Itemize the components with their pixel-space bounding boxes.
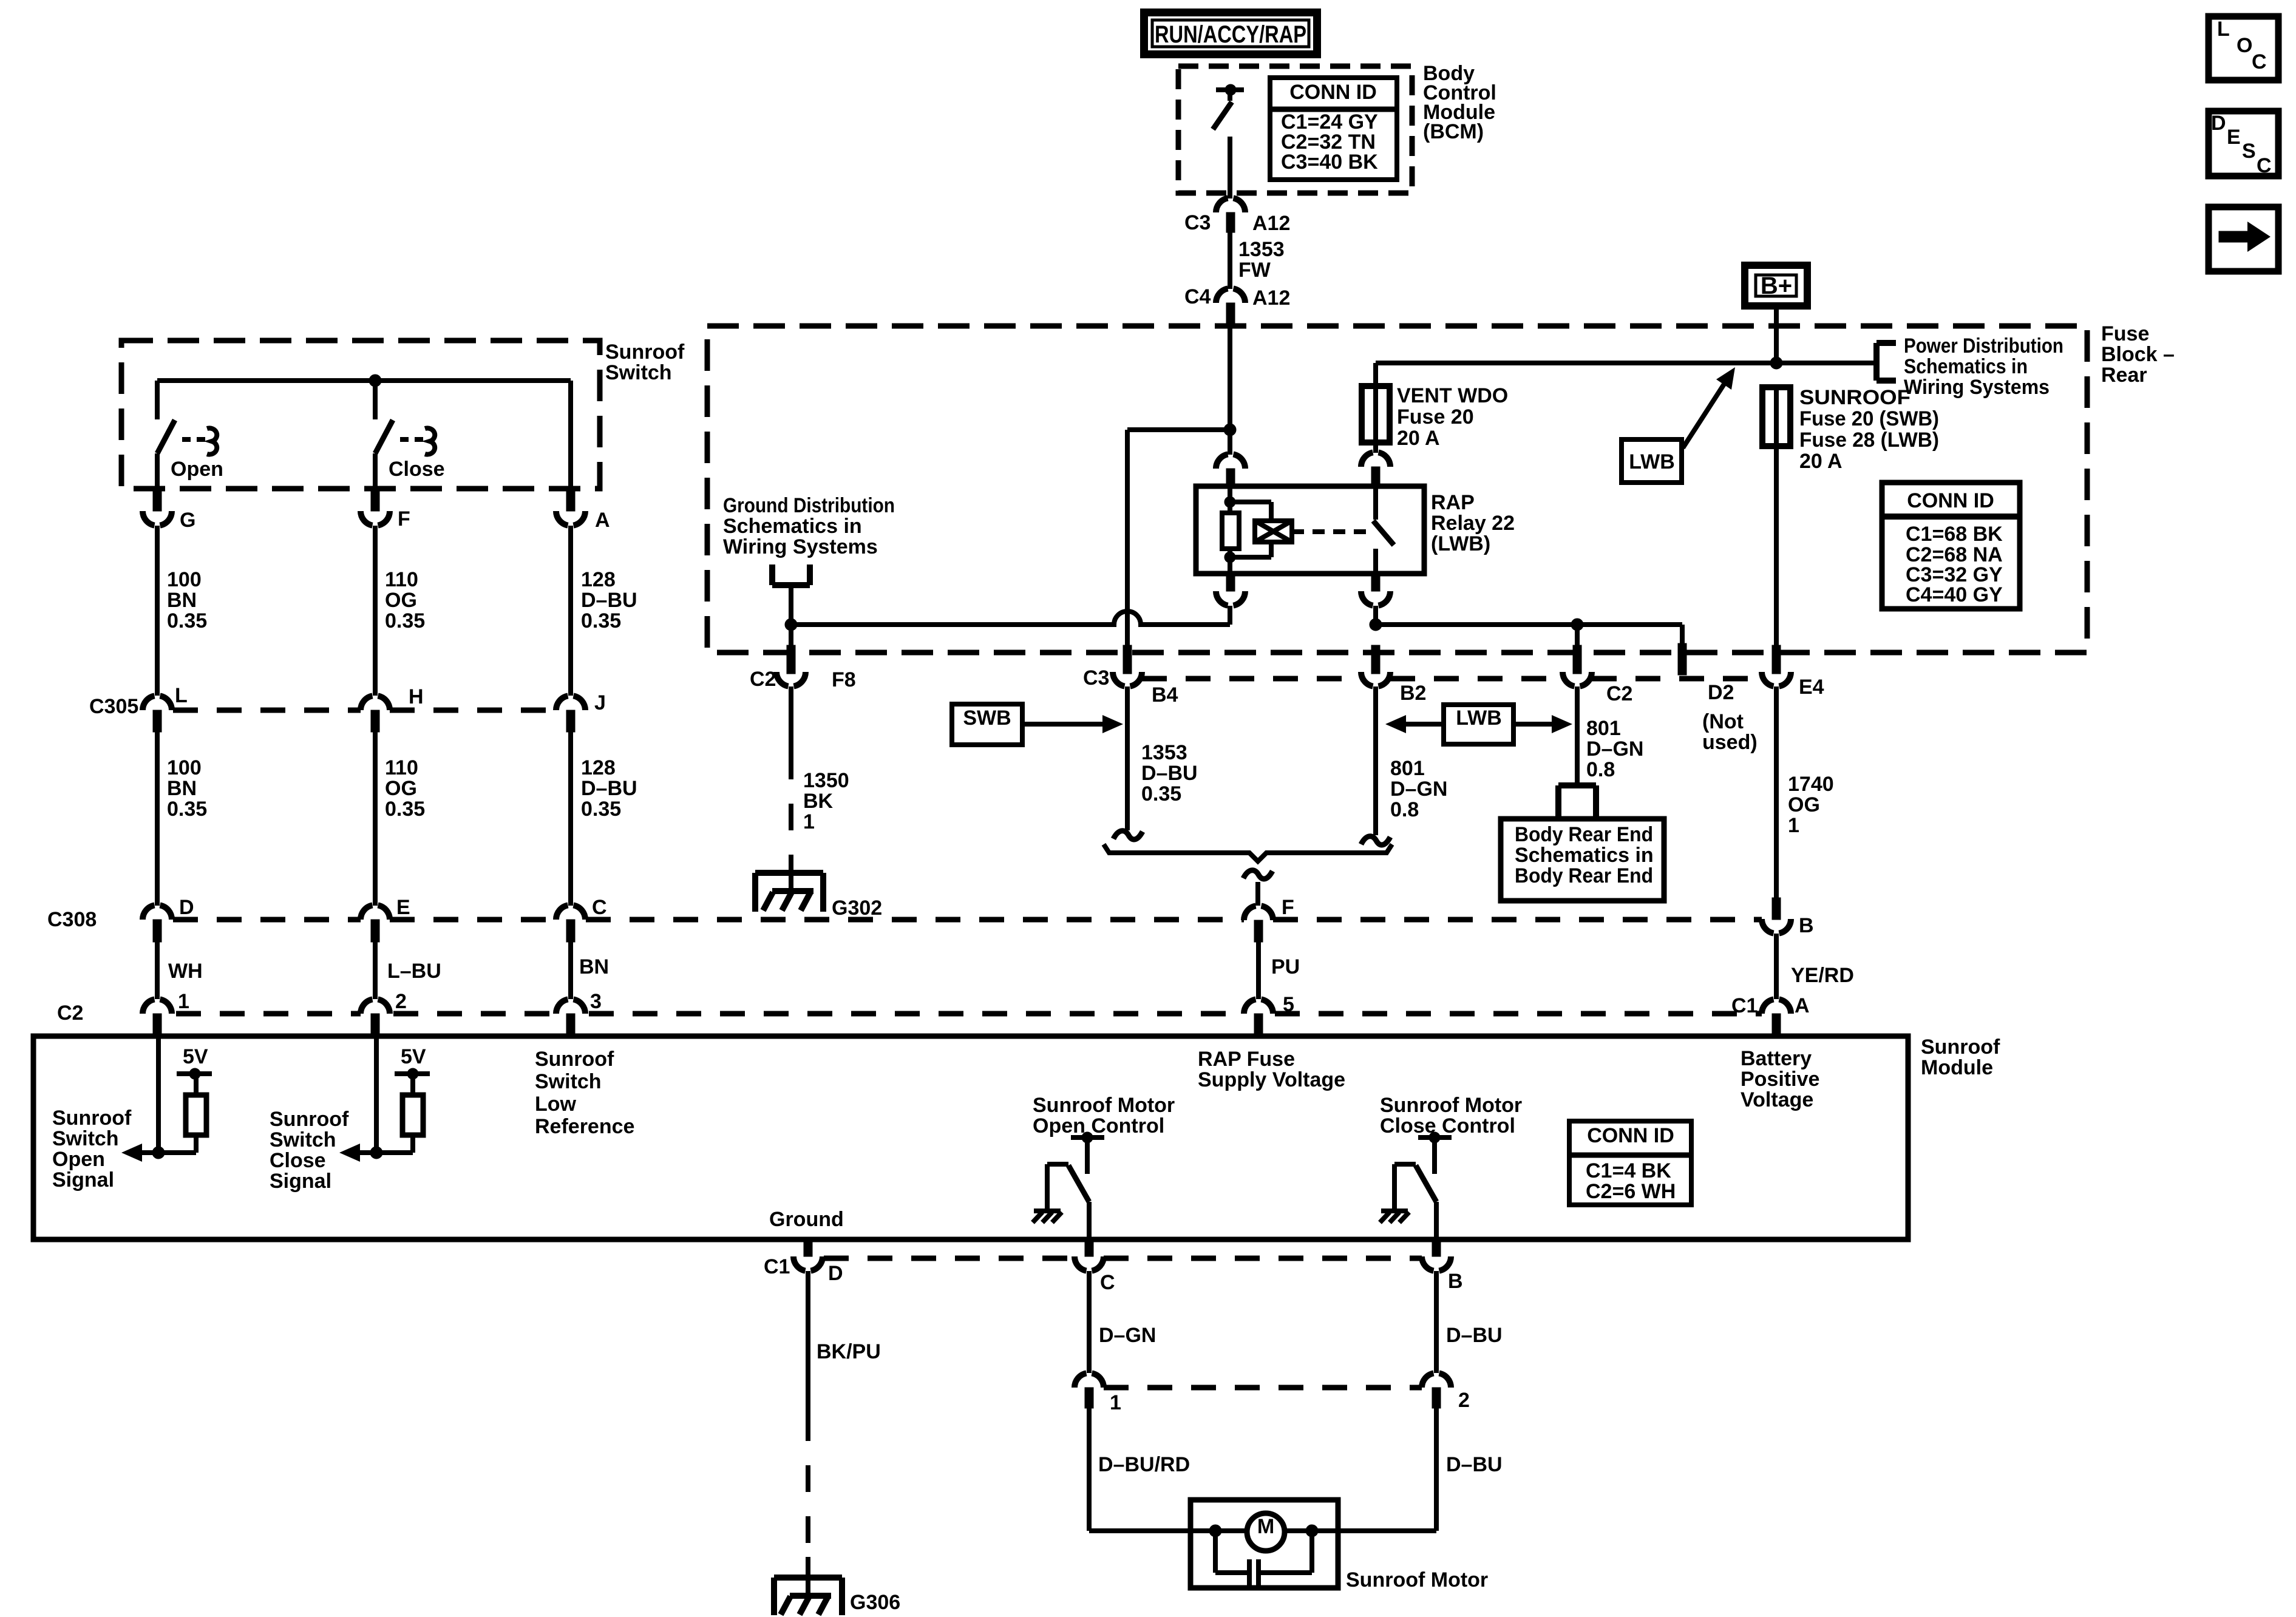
svg-text:RUN/ACCY/RAP: RUN/ACCY/RAP xyxy=(1155,21,1306,48)
connector pin B xyxy=(1772,898,1781,920)
svg-text:Power Distribution: Power Distribution xyxy=(1904,334,2063,358)
svg-text:0.35: 0.35 xyxy=(167,798,207,821)
svg-text:110: 110 xyxy=(385,568,418,591)
LWB tag double arrow xyxy=(1444,705,1513,744)
svg-text:D2: D2 xyxy=(1708,681,1734,704)
wire brace to F xyxy=(1255,882,1260,906)
svg-text:Close Control: Close Control xyxy=(1380,1114,1515,1137)
connector C2 pin 1 xyxy=(143,999,172,1014)
svg-text:VENT WDO: VENT WDO xyxy=(1397,384,1508,407)
connector C305 pin L xyxy=(143,696,172,710)
svg-text:5V: 5V xyxy=(183,1045,208,1068)
svg-text:D–GN: D–GN xyxy=(1586,737,1643,761)
node motor right xyxy=(1306,1525,1318,1537)
svg-text:110: 110 xyxy=(385,756,418,779)
wire B+ to rail xyxy=(1774,310,1779,363)
svg-text:1: 1 xyxy=(178,990,189,1013)
svg-text:CONN ID: CONN ID xyxy=(1907,489,1994,512)
svg-text:C2: C2 xyxy=(750,668,776,691)
svg-text:E: E xyxy=(396,896,410,919)
sunroof module box xyxy=(33,1036,1908,1239)
motor open control switch xyxy=(1071,1135,1104,1140)
svg-text:O: O xyxy=(2237,34,2252,57)
wire junction to F8 xyxy=(789,625,793,645)
svg-text:Open Control: Open Control xyxy=(1033,1114,1164,1137)
svg-text:Battery: Battery xyxy=(1741,1047,1812,1070)
svg-text:WH: WH xyxy=(168,960,203,983)
svg-text:Signal: Signal xyxy=(52,1168,114,1192)
svg-text:F: F xyxy=(1282,896,1294,919)
wire 110 OG 0.35 lower xyxy=(373,732,378,906)
LWB tag with arrow xyxy=(1622,439,1682,483)
wire BK/PU xyxy=(806,1271,810,1414)
connector pin F xyxy=(371,492,379,511)
switch Close linkage xyxy=(400,437,423,442)
svg-text:Fuse 28 (LWB): Fuse 28 (LWB) xyxy=(1799,429,1939,452)
wire 100 BN 0.35 upper xyxy=(155,526,160,696)
wire BN xyxy=(568,942,573,999)
switch Close xyxy=(373,381,378,419)
svg-text:0.8: 0.8 xyxy=(1586,758,1615,781)
svg-text:Switch: Switch xyxy=(270,1128,336,1151)
node relay branch xyxy=(1224,424,1236,436)
svg-text:B: B xyxy=(1799,914,1814,937)
svg-text:C1=4 BK: C1=4 BK xyxy=(1586,1159,1671,1182)
connector D2 not used xyxy=(1678,643,1686,675)
svg-text:2: 2 xyxy=(1458,1389,1470,1412)
wire 128 D-BU 0.35 upper xyxy=(568,526,573,696)
body rear end note box xyxy=(1501,819,1664,901)
svg-text:LWB: LWB xyxy=(1456,707,1502,730)
svg-text:B4: B4 xyxy=(1152,683,1178,707)
svg-text:C3: C3 xyxy=(1184,211,1211,234)
svg-text:801: 801 xyxy=(1390,757,1425,780)
svg-text:Close: Close xyxy=(270,1149,326,1172)
svg-text:C: C xyxy=(1100,1271,1115,1294)
wire 100 BN 0.35 lower xyxy=(155,732,160,906)
ground close control xyxy=(1381,1209,1408,1213)
svg-text:D: D xyxy=(828,1262,843,1285)
arrow open signal xyxy=(142,1150,158,1155)
svg-text:Wiring Systems: Wiring Systems xyxy=(1904,376,2050,399)
svg-text:C: C xyxy=(592,896,607,919)
wire D-GN xyxy=(1087,1271,1092,1373)
relay pin top-right xyxy=(1361,452,1390,467)
wire D-BU/RD xyxy=(1087,1408,1092,1531)
DESC legend box xyxy=(2209,111,2278,176)
connector C308 pin D xyxy=(143,905,172,920)
svg-text:C305: C305 xyxy=(89,695,138,718)
svg-text:LWB: LWB xyxy=(1629,450,1675,473)
wire YE/RD xyxy=(1774,934,1779,999)
fuse SUNROOF 20A xyxy=(1762,387,1790,446)
svg-text:1: 1 xyxy=(1788,814,1799,837)
svg-text:BN: BN xyxy=(167,777,197,800)
svg-text:Fuse 20: Fuse 20 xyxy=(1397,405,1474,429)
svg-text:5V: 5V xyxy=(401,1045,426,1068)
svg-text:D–BU/RD: D–BU/RD xyxy=(1098,1453,1190,1476)
bundle brace xyxy=(1104,844,1392,861)
connector C3 pin B4 xyxy=(1123,645,1132,674)
svg-text:0.35: 0.35 xyxy=(581,798,621,821)
ground open control xyxy=(1034,1209,1061,1213)
svg-text:YE/RD: YE/RD xyxy=(1791,964,1854,987)
node motor left xyxy=(1209,1525,1221,1537)
svg-text:0.35: 0.35 xyxy=(385,609,425,632)
connector C1 pin A xyxy=(1762,999,1791,1014)
motor close control switch xyxy=(1418,1135,1452,1140)
BCM CONN ID table xyxy=(1270,78,1397,180)
connector C305 dashed line xyxy=(173,708,361,713)
svg-text:Schematics in: Schematics in xyxy=(1515,844,1654,867)
forward arrow legend box xyxy=(2209,207,2278,271)
svg-text:D–BU: D–BU xyxy=(1141,762,1198,785)
wire relay to D2 xyxy=(1370,619,1382,631)
svg-text:E: E xyxy=(2227,126,2241,149)
wire C4 to relay xyxy=(1228,327,1232,455)
svg-text:Module: Module xyxy=(1921,1056,1993,1079)
node ground junction xyxy=(785,619,797,631)
svg-text:Body Rear End: Body Rear End xyxy=(1515,864,1653,887)
connector C2 right xyxy=(1573,645,1581,674)
switch feed wire xyxy=(157,378,571,383)
svg-text:C3=40 BK: C3=40 BK xyxy=(1281,151,1378,174)
svg-text:BK: BK xyxy=(803,790,834,813)
module CONN ID table xyxy=(1569,1121,1691,1205)
wire ground to relay coil xyxy=(791,611,1230,625)
svg-text:(LWB): (LWB) xyxy=(1431,532,1490,555)
svg-text:Sunroof: Sunroof xyxy=(52,1107,132,1130)
fuse block inner connector dashed line xyxy=(1142,676,1361,682)
motor feed wire xyxy=(1089,1528,1436,1533)
svg-text:20 A: 20 A xyxy=(1397,427,1440,450)
svg-text:H: H xyxy=(409,685,424,708)
wire 128 D-BU 0.35 lower xyxy=(568,732,573,906)
motor M xyxy=(1247,1513,1285,1551)
svg-text:Switch: Switch xyxy=(605,361,672,384)
svg-text:Rear: Rear xyxy=(2101,364,2147,387)
svg-text:C1: C1 xyxy=(764,1255,790,1278)
svg-text:D–BU: D–BU xyxy=(1446,1453,1503,1476)
svg-text:20 A: 20 A xyxy=(1799,450,1843,473)
svg-text:L: L xyxy=(175,684,188,707)
wire L-BU xyxy=(373,942,378,999)
svg-text:Open: Open xyxy=(171,458,223,481)
SWB tag with arrow xyxy=(952,704,1022,745)
connector C308 pin E xyxy=(361,905,390,920)
fuse block CONN ID table xyxy=(1882,483,2020,609)
svg-text:D–GN: D–GN xyxy=(1390,778,1447,801)
connector C2 dashed line xyxy=(176,1011,361,1017)
svg-text:Fuse 20 (SWB): Fuse 20 (SWB) xyxy=(1799,407,1939,430)
svg-text:J: J xyxy=(594,691,606,714)
svg-text:Open: Open xyxy=(52,1148,105,1171)
wire PU xyxy=(1256,942,1261,999)
ground G306 xyxy=(774,1575,842,1581)
connector C308 dashed line xyxy=(173,917,361,923)
connector C2 pin F8 xyxy=(787,645,795,674)
motor connector pin 1 xyxy=(1075,1373,1104,1388)
LOC legend box xyxy=(2209,16,2278,80)
svg-text:(Not: (Not xyxy=(1702,710,1744,733)
svg-text:0.35: 0.35 xyxy=(1141,782,1181,805)
wire 110 OG 0.35 upper xyxy=(373,526,378,696)
svg-text:Schematics in: Schematics in xyxy=(1904,355,2028,378)
svg-text:CONN ID: CONN ID xyxy=(1587,1124,1674,1147)
svg-text:Positive: Positive xyxy=(1741,1068,1819,1091)
switch Open xyxy=(155,381,160,419)
svg-text:Voltage: Voltage xyxy=(1741,1088,1813,1111)
connector E4 xyxy=(1772,645,1781,674)
svg-text:Sunroof Motor: Sunroof Motor xyxy=(1380,1094,1522,1117)
wire 801 D-GN 0.8 right xyxy=(1575,686,1580,785)
svg-text:A12: A12 xyxy=(1252,286,1290,310)
svg-text:Relay 22: Relay 22 xyxy=(1431,512,1515,535)
svg-text:Schematics in: Schematics in xyxy=(723,515,862,538)
svg-text:used): used) xyxy=(1702,731,1758,754)
motor capacitor xyxy=(1213,1531,1218,1573)
connector C1 pin D xyxy=(804,1239,812,1256)
svg-text:SUNROOF: SUNROOF xyxy=(1799,386,1911,409)
svg-text:1353: 1353 xyxy=(1141,741,1187,764)
relay pin top-left xyxy=(1216,454,1245,469)
svg-text:Signal: Signal xyxy=(270,1170,331,1193)
svg-text:BN: BN xyxy=(579,955,609,978)
svg-text:G: G xyxy=(180,509,195,532)
svg-text:B+: B+ xyxy=(1761,273,1792,299)
svg-text:801: 801 xyxy=(1586,717,1621,740)
svg-text:Switch: Switch xyxy=(535,1070,602,1093)
svg-text:100: 100 xyxy=(167,568,202,591)
svg-text:BK/PU: BK/PU xyxy=(817,1340,881,1363)
svg-text:D–BU: D–BU xyxy=(581,777,637,800)
svg-text:PU: PU xyxy=(1271,955,1300,978)
ground distribution bracket xyxy=(769,564,775,585)
connector C3 pin A12 xyxy=(1216,198,1245,212)
relay RAP Relay 22 box xyxy=(1196,486,1424,574)
svg-text:Ground Distribution: Ground Distribution xyxy=(723,494,895,517)
svg-text:C4: C4 xyxy=(1184,285,1211,308)
sunroof switch dashed box xyxy=(121,341,600,489)
wire 1353 D-BU 0.35 xyxy=(1125,686,1130,830)
svg-text:L–BU: L–BU xyxy=(387,960,441,983)
svg-text:Low: Low xyxy=(535,1093,577,1116)
wire D-BU upper xyxy=(1434,1271,1439,1373)
power distribution bracket xyxy=(1873,343,1880,381)
connector pin A xyxy=(566,492,575,511)
svg-text:A: A xyxy=(595,509,610,532)
svg-text:D: D xyxy=(179,896,194,919)
svg-text:D: D xyxy=(2211,112,2226,135)
sunroof motor box xyxy=(1190,1500,1338,1588)
connector F xyxy=(1244,906,1273,920)
connector C2 pin 3 xyxy=(556,999,585,1014)
svg-text:D–BU: D–BU xyxy=(1446,1324,1503,1347)
svg-text:A: A xyxy=(1795,994,1810,1017)
relay pin bottom-right xyxy=(1371,574,1380,591)
svg-text:L: L xyxy=(2217,18,2230,41)
svg-text:Sunroof: Sunroof xyxy=(270,1108,349,1131)
connector C1 pin C xyxy=(1085,1239,1093,1256)
svg-text:C1=68 BK: C1=68 BK xyxy=(1906,523,2003,546)
svg-text:Sunroof: Sunroof xyxy=(605,341,685,364)
svg-text:100: 100 xyxy=(167,756,202,779)
svg-text:Sunroof: Sunroof xyxy=(535,1048,614,1071)
motor connector pin 2 xyxy=(1422,1373,1451,1388)
connector B2 xyxy=(1371,645,1380,674)
splice squiggle B2 xyxy=(1361,836,1390,845)
svg-text:Wiring Systems: Wiring Systems xyxy=(723,535,878,558)
body rear end bracket xyxy=(1555,785,1561,819)
svg-text:Switch: Switch xyxy=(52,1127,119,1150)
svg-text:1350: 1350 xyxy=(803,769,849,792)
connector C305 pin H xyxy=(361,696,390,710)
svg-text:RAP: RAP xyxy=(1431,491,1475,514)
svg-text:A12: A12 xyxy=(1252,212,1290,235)
svg-text:1740: 1740 xyxy=(1788,773,1834,796)
connector C2 pin 2 xyxy=(361,999,390,1014)
relay switch xyxy=(1373,486,1378,520)
wire WH xyxy=(155,942,160,999)
battery positive label B+ xyxy=(1745,265,1807,306)
svg-text:OG: OG xyxy=(385,777,417,800)
svg-text:128: 128 xyxy=(581,568,616,591)
svg-text:1: 1 xyxy=(1110,1391,1121,1414)
5V pullup open xyxy=(156,1036,161,1153)
relay coil circuit xyxy=(1228,486,1232,513)
svg-text:Sunroof Motor: Sunroof Motor xyxy=(1033,1094,1175,1117)
connector row C1 dashed line xyxy=(824,1256,1075,1261)
svg-text:Block –: Block – xyxy=(2101,343,2175,366)
power rail wire xyxy=(1376,361,1877,365)
relay pin bottom-left xyxy=(1226,574,1235,591)
svg-text:D–GN: D–GN xyxy=(1099,1324,1156,1347)
splice squiggle B4 xyxy=(1113,831,1143,839)
wire 1350 BK 1 xyxy=(789,686,793,753)
relay coil resistor xyxy=(1222,513,1239,549)
svg-text:C: C xyxy=(2257,154,2272,177)
svg-text:M: M xyxy=(1257,1515,1274,1538)
svg-text:RAP Fuse: RAP Fuse xyxy=(1198,1048,1295,1071)
svg-text:0.35: 0.35 xyxy=(385,798,425,821)
svg-text:128: 128 xyxy=(581,756,616,779)
svg-text:Supply Voltage: Supply Voltage xyxy=(1198,1068,1345,1091)
svg-text:G302: G302 xyxy=(832,897,882,920)
wire 1740 OG 1 xyxy=(1774,686,1779,898)
svg-text:C3: C3 xyxy=(1083,666,1109,690)
svg-text:3: 3 xyxy=(590,990,602,1013)
svg-text:B: B xyxy=(1448,1270,1463,1293)
svg-text:C308: C308 xyxy=(47,908,97,931)
svg-text:G306: G306 xyxy=(850,1591,900,1614)
svg-text:(BCM): (BCM) xyxy=(1423,120,1484,143)
switch Open linkage xyxy=(182,437,205,442)
svg-text:BN: BN xyxy=(167,589,197,612)
svg-text:Reference: Reference xyxy=(535,1115,634,1138)
connector C4 pin A12 xyxy=(1216,288,1245,303)
svg-text:C1: C1 xyxy=(1731,994,1758,1017)
connector C308 pin C xyxy=(556,905,585,920)
svg-text:Body Rear End: Body Rear End xyxy=(1515,823,1653,846)
BCM dashed box xyxy=(1178,66,1412,193)
BCM internal switch xyxy=(1216,87,1244,92)
svg-text:C4=40 GY: C4=40 GY xyxy=(1906,583,2003,606)
fuse block dashed box xyxy=(707,326,2087,653)
connector pin 5 xyxy=(1244,999,1273,1014)
svg-text:C2: C2 xyxy=(57,1002,83,1025)
svg-text:FW: FW xyxy=(1238,259,1271,282)
fuse VENT WDO 20A xyxy=(1362,386,1390,442)
relay actuation dashed link xyxy=(1292,529,1367,534)
svg-text:0.35: 0.35 xyxy=(581,609,621,632)
svg-text:C2=6 WH: C2=6 WH xyxy=(1586,1180,1676,1203)
svg-text:SWB: SWB xyxy=(963,707,1011,730)
svg-text:C: C xyxy=(2252,50,2267,73)
svg-text:Ground: Ground xyxy=(769,1208,844,1231)
power mode label RUN/ACCY/RAP xyxy=(1144,13,1317,55)
svg-text:0.35: 0.35 xyxy=(167,609,207,632)
splice squiggle F xyxy=(1243,870,1272,879)
motor connector dashed line xyxy=(1104,1385,1422,1391)
svg-text:F8: F8 xyxy=(832,668,856,691)
wire branch to B4 xyxy=(1127,427,1230,432)
node rail junction xyxy=(1770,357,1782,369)
svg-text:1: 1 xyxy=(803,810,815,833)
connector C305 pin J xyxy=(556,696,585,710)
svg-text:F: F xyxy=(398,507,410,531)
svg-text:C2: C2 xyxy=(1606,682,1632,705)
svg-text:E4: E4 xyxy=(1799,676,1824,699)
svg-text:B2: B2 xyxy=(1400,682,1426,705)
wire D-BU lower xyxy=(1434,1408,1439,1531)
svg-text:2: 2 xyxy=(395,990,407,1013)
svg-text:OG: OG xyxy=(1788,793,1820,816)
svg-text:Fuse: Fuse xyxy=(2101,322,2149,345)
svg-text:Close: Close xyxy=(389,458,445,481)
svg-text:D–BU: D–BU xyxy=(581,589,637,612)
svg-text:OG: OG xyxy=(385,589,417,612)
connector pin G xyxy=(153,492,161,511)
5V pullup close xyxy=(374,1036,379,1153)
svg-text:Sunroof: Sunroof xyxy=(1921,1036,2000,1059)
ground G302 xyxy=(755,870,823,876)
svg-text:0.8: 0.8 xyxy=(1390,798,1419,821)
arrow close signal xyxy=(360,1150,376,1155)
connector C1 pin B xyxy=(1432,1239,1441,1256)
svg-text:S: S xyxy=(2242,140,2256,163)
svg-text:Sunroof Motor: Sunroof Motor xyxy=(1346,1568,1488,1592)
svg-text:CONN ID: CONN ID xyxy=(1289,81,1377,104)
svg-text:1353: 1353 xyxy=(1238,238,1285,261)
wire 1353 FW xyxy=(1228,232,1232,274)
wire 801 D-GN 0.8 left xyxy=(1373,686,1378,835)
